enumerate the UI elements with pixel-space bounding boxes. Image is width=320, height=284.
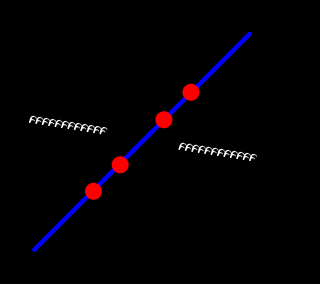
text row 2 (middle right squiggles) [179, 143, 257, 161]
node A: red point 1 [85, 183, 102, 200]
node D: red point 4 [182, 84, 199, 101]
node C: red point 3 [155, 111, 172, 128]
node B: red point 2 [112, 156, 129, 173]
wire: blue diagonal line [34, 34, 249, 250]
text row 1 (upper left squiggles) [30, 116, 108, 134]
